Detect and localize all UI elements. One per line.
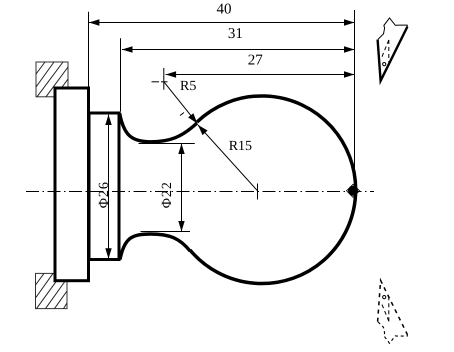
R5 leader line — [164, 82, 197, 123]
extension line right — [354, 10, 356, 190]
cutting tool icon top right — [378, 18, 408, 81]
extension line middle (at 31 datum) — [120, 38, 122, 111]
chuck jaw top (hatched) — [36, 62, 68, 97]
workpiece flange — [55, 88, 89, 281]
svg-text:27: 27 — [248, 53, 264, 69]
phi26 dimension line — [108, 115, 110, 259]
dimension 31 line — [122, 49, 355, 51]
workpiece cylinder phi26 — [89, 113, 119, 260]
R15 leader line — [198, 125, 258, 191]
dimension 27 line — [166, 74, 355, 76]
svg-text:31: 31 — [228, 26, 243, 42]
node diamond marker — [347, 184, 360, 197]
phi22 down arrowhead — [178, 221, 184, 232]
svg-text:R15: R15 — [229, 139, 252, 154]
dimension 31 left arrowhead — [122, 46, 133, 52]
R5 leader arrowhead — [188, 113, 197, 123]
extension line left (at 40 datum) — [88, 12, 90, 87]
cutting tool icon bottom right (dashed, mirrored) — [378, 280, 408, 343]
dimension 27 left arrowhead — [166, 71, 177, 77]
R5 arc center mark — [152, 68, 168, 90]
dimension 31 right arrowhead — [344, 46, 355, 52]
svg-text:Φ26: Φ26 — [97, 181, 112, 208]
phi22 bottom extension line — [141, 231, 191, 233]
ball R15 outline — [190, 96, 356, 284]
stray tick near R5 arrow — [180, 113, 184, 116]
phi26 down arrowhead — [105, 248, 111, 258]
phi22 top extension line — [139, 143, 195, 145]
phi26 up arrowhead — [105, 115, 111, 126]
svg-text:40: 40 — [217, 1, 232, 17]
phi22 up arrowhead — [178, 144, 184, 155]
groove upper profile (R5 dip) — [120, 113, 198, 142]
svg-text:Φ22: Φ22 — [160, 181, 175, 208]
dimension 27 right arrowhead — [344, 71, 355, 77]
phi22 dimension line — [181, 144, 183, 232]
dimension 40 right arrowhead — [344, 19, 355, 25]
dimension 40 left arrowhead — [89, 19, 100, 25]
svg-text:R5: R5 — [180, 79, 196, 94]
ball center tick — [257, 184, 259, 200]
dimension 40 line — [89, 22, 355, 24]
R15 leader arrowhead — [198, 125, 208, 135]
node dot at right quadrant — [348, 186, 358, 196]
groove lower profile — [120, 234, 190, 260]
chuck jaw bottom (hatched) — [36, 273, 68, 308]
centerline — [26, 191, 374, 193]
